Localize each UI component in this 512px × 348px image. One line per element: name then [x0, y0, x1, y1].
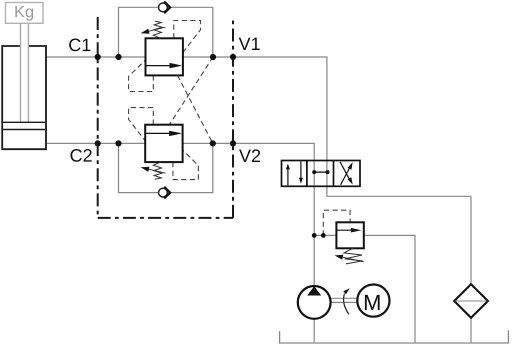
- node C1 block border: [95, 54, 101, 60]
- RV1 spring adjust arrow: [343, 257, 364, 262]
- valve block boundary (dash-dot enclosure): [98, 17, 233, 218]
- rotation arrow: [344, 294, 349, 315]
- wire bypass lower (check valve loop): [119, 143, 213, 192]
- DV1 left envelope down arrow: [300, 162, 302, 180]
- motor M1: [357, 285, 389, 317]
- pilot line CB1 to V2 (dashed diagonal): [178, 75, 213, 143]
- relief valve RV1 body: [336, 222, 363, 248]
- counterbalance valve CB2 pilot staple top-left (dashed): [129, 108, 154, 141]
- node C2 block border: [95, 140, 101, 146]
- node C1 bypass branch: [115, 54, 121, 60]
- wire bypass upper (check valve loop): [119, 7, 213, 57]
- RV1 flow arrow: [337, 229, 353, 231]
- wire pump suction: [313, 319, 315, 343]
- wire V1 to directional valve port B: [183, 57, 471, 196]
- label C1: [69, 39, 80, 52]
- check valve lower: [159, 187, 171, 199]
- CB1 spring adjust arrow: [149, 27, 166, 31]
- CB2 flow arrow: [145, 132, 170, 134]
- load weight Kg: [6, 3, 44, 24]
- node V1 block border: [230, 54, 236, 60]
- label V2: [239, 150, 251, 162]
- tank reservoir line: [280, 330, 509, 343]
- directional control valve DV1: [282, 161, 361, 187]
- DV1 centre position A-B link: [314, 171, 327, 173]
- counterbalance valve CB1 body: [146, 38, 183, 75]
- RV1 spring: [344, 248, 363, 264]
- relief valve RV1 pilot (dashed): [323, 210, 350, 235]
- CB1 spring: [153, 21, 161, 38]
- CB1 flow arrow: [146, 65, 171, 67]
- check valve upper: [159, 2, 171, 14]
- DV1 left envelope up arrow: [287, 168, 289, 186]
- filter F1: [454, 284, 488, 318]
- pilot line CB2 to V1 (dashed diagonal): [169, 57, 213, 125]
- CB2 spring: [153, 162, 161, 179]
- wire C1 cylinder to valve block: [46, 56, 146, 58]
- wire relief branch: [314, 234, 336, 236]
- DV1 right envelope crossed arrows: [341, 168, 350, 185]
- piston rod: [21, 23, 29, 122]
- node relief branch tee: [312, 233, 317, 238]
- CB2 spring adjust arrow: [149, 169, 166, 173]
- wire relief outlet to tank: [364, 235, 415, 343]
- node V2 bypass branch: [210, 140, 216, 146]
- wire C2 cylinder to valve block: [46, 142, 145, 144]
- cylinder: [2, 46, 46, 149]
- counterbalance valve CB2 pilot staple bottom-right (dashed): [173, 150, 199, 180]
- counterbalance valve CB1 pilot staple bottom-left (dashed): [129, 60, 154, 92]
- node V1 bypass branch: [210, 54, 216, 60]
- pump-motor shaft: [330, 297, 357, 299]
- label C2: [71, 149, 82, 162]
- node relief pilot tap: [321, 233, 326, 238]
- wire V2 to directional valve port A: [183, 143, 315, 286]
- wire tank return to filter: [470, 196, 472, 343]
- node C2 bypass branch: [115, 140, 121, 146]
- pump P1: [298, 286, 331, 319]
- label V1: [239, 38, 251, 50]
- node V2 block border: [230, 140, 236, 146]
- counterbalance valve CB1 pilot staple top-right (dashed): [174, 21, 201, 53]
- counterbalance valve CB2 body: [145, 125, 182, 162]
